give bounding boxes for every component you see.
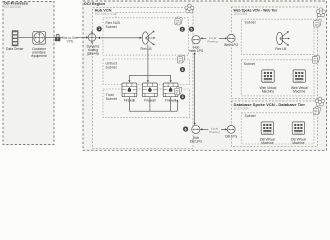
svg-text:10.0.0.0/24: 10.0.0.0/24 <box>234 12 248 16</box>
svg-text:Subnet: Subnet <box>106 97 117 101</box>
wire flex LB down to branch <box>147 45 149 76</box>
DB LPG icon <box>227 125 235 133</box>
hub DB LPG icon <box>192 125 200 133</box>
svg-text:DB LPG: DB LPG <box>190 140 202 144</box>
OCI region box <box>83 1 327 151</box>
badge 3 <box>180 67 185 72</box>
svg-text:Machine: Machine <box>292 141 304 145</box>
data center icon <box>12 30 19 46</box>
svg-text:Subnet: Subnet <box>106 25 117 29</box>
site-to-site VPN lock <box>55 34 77 43</box>
wire hub web LPG to hub DB LPG <box>193 52 195 125</box>
web LPG icon <box>227 34 235 42</box>
wire data center to CPE <box>18 36 33 38</box>
svg-text:gateway: gateway <box>87 52 99 56</box>
db VM 1 icon <box>261 122 273 134</box>
svg-text:4: 4 <box>182 95 184 99</box>
web spoke VCN box <box>231 7 317 98</box>
svg-text:5: 5 <box>191 28 193 32</box>
svg-text:Subnet: Subnet <box>245 21 256 25</box>
wire CPE to DRG <box>45 36 88 38</box>
svg-text:Data Center: Data Center <box>6 47 24 51</box>
badge 4 <box>180 94 185 99</box>
db VM 2 icon <box>292 122 304 134</box>
web VM 2 label <box>291 86 308 94</box>
docs icon web subnet 1 <box>314 19 322 27</box>
svg-text:VPN: VPN <box>67 39 74 43</box>
svg-text:Machine: Machine <box>261 141 273 145</box>
firewall 2 <box>143 83 158 97</box>
db VM 1 label <box>260 137 275 145</box>
badge 1 <box>97 26 102 31</box>
docs icon flex subnet <box>175 17 183 25</box>
hub VCN flower icon <box>185 4 194 13</box>
svg-text:6: 6 <box>185 127 187 131</box>
svg-text:Machine: Machine <box>262 90 274 94</box>
trust subnet box <box>103 89 190 118</box>
svg-text:1: 1 <box>98 27 100 31</box>
svg-text:Flex LB: Flex LB <box>275 47 286 51</box>
svg-text:Subnet: Subnet <box>244 62 255 66</box>
badge 2 <box>180 27 185 32</box>
svg-text:Subnet: Subnet <box>106 66 117 70</box>
svg-text:192.168.0.0/16: 192.168.0.0/16 <box>95 12 117 16</box>
web flex LB icon <box>277 31 290 46</box>
bottom local peering wire <box>200 126 227 134</box>
docs icon web subnet 2 <box>312 55 320 63</box>
wire DRG to hub flex LB <box>96 37 142 39</box>
firewall 3 <box>163 83 178 97</box>
hub web LPG icon <box>192 36 200 44</box>
db VCN flower icon <box>315 97 324 106</box>
docs icon untrust subnet <box>178 55 186 63</box>
db VM 2 label <box>291 137 306 145</box>
db subnet box <box>241 113 314 144</box>
top local peering wire <box>200 35 227 43</box>
web VM 2 icon <box>293 70 305 82</box>
svg-text:DB LPG: DB LPG <box>225 134 237 138</box>
web subnet 1 box <box>241 19 314 54</box>
svg-text:10.1.0.0/24: 10.1.0.0/24 <box>234 107 249 111</box>
svg-text:Subnet: Subnet <box>245 114 256 118</box>
on-premises box <box>3 1 54 145</box>
hub web LPG label <box>189 46 204 54</box>
badge 5 <box>189 27 194 32</box>
web VCN flower icon <box>316 8 325 17</box>
svg-text:Web LPG: Web LPG <box>189 49 204 53</box>
svg-text:172.16.0.0/16: 172.16.0.0/16 <box>4 5 21 9</box>
web VM 1 label <box>260 86 277 94</box>
wire firewalls bottom bus <box>129 97 178 111</box>
svg-text:Flex LB: Flex LB <box>140 47 151 51</box>
hub VCN box <box>93 7 193 148</box>
svg-text:Peering: Peering <box>207 39 218 43</box>
svg-text:Machine: Machine <box>293 90 305 94</box>
firewall 1 <box>122 83 137 97</box>
database spoke VCN box <box>231 101 317 147</box>
CPE label <box>31 47 47 58</box>
docs icon db subnet <box>313 106 321 114</box>
svg-text:Web LPG: Web LPG <box>224 43 239 47</box>
svg-text:OCI Region: OCI Region <box>84 1 106 6</box>
DRG icon <box>88 31 96 44</box>
inner dashed box top (hub) <box>116 12 189 17</box>
svg-text:3: 3 <box>182 68 184 72</box>
badge 6 <box>183 126 188 131</box>
web subnet 2 box <box>241 60 314 96</box>
web VM 1 icon <box>262 70 274 82</box>
svg-text:Peering: Peering <box>209 130 220 134</box>
hub flex LB icon <box>142 31 155 46</box>
branch bus over firewalls <box>128 75 172 82</box>
svg-text:equipment: equipment <box>31 54 46 58</box>
CPE icon <box>33 31 46 44</box>
flex NLB subnet box <box>103 18 189 55</box>
untrust subnet box <box>103 59 190 85</box>
DRG label <box>87 45 100 56</box>
hub DB LPG label <box>190 136 202 144</box>
svg-text:2: 2 <box>181 28 183 32</box>
docs icon trust subnet <box>175 87 183 95</box>
site-to-site VPN label <box>62 36 78 43</box>
